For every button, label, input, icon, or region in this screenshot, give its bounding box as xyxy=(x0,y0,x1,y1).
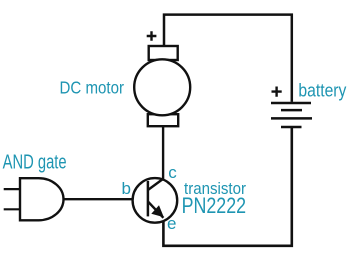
svg-text:e: e xyxy=(167,214,176,233)
svg-text:PN2222: PN2222 xyxy=(182,193,247,218)
DC motor M1 top terminal xyxy=(149,46,178,60)
transistor Q1 body xyxy=(133,178,178,223)
svg-text:b: b xyxy=(122,179,131,198)
transistor Q1 collector stroke xyxy=(148,179,164,191)
wire: transistor emitter to battery bottom (down, right, up) xyxy=(163,128,291,246)
wire: AND gate input 1 xyxy=(4,188,20,190)
AND gate U1 body xyxy=(20,178,64,220)
svg-text:c: c xyxy=(168,163,177,182)
wire: motor top to battery top (up, right, down) xyxy=(164,15,292,102)
svg-text:DC motor: DC motor xyxy=(60,77,125,97)
transistor Q1 emitter stroke xyxy=(148,202,164,218)
DC motor M1 body xyxy=(134,59,190,115)
battery B1 plate 1 (long, +) xyxy=(271,102,311,105)
battery B1 plate 4 (short) xyxy=(281,126,302,129)
DC motor M1 bottom terminal xyxy=(148,114,178,126)
polarity + at battery xyxy=(272,87,282,97)
wire: AND gate input 2 xyxy=(4,208,20,210)
svg-text:battery: battery xyxy=(298,80,346,100)
polarity + at motor xyxy=(147,31,157,40)
battery B1 plate 3 (long) xyxy=(271,117,312,120)
wire: motor bottom to transistor collector xyxy=(162,126,164,180)
battery B1 plate 2 (short) xyxy=(281,109,302,112)
svg-text:AND gate: AND gate xyxy=(3,152,67,174)
wire: AND gate output to transistor base xyxy=(63,198,147,200)
transistor Q1 emitter arrowhead xyxy=(152,206,162,216)
transistor Q1 base bar xyxy=(147,181,150,216)
